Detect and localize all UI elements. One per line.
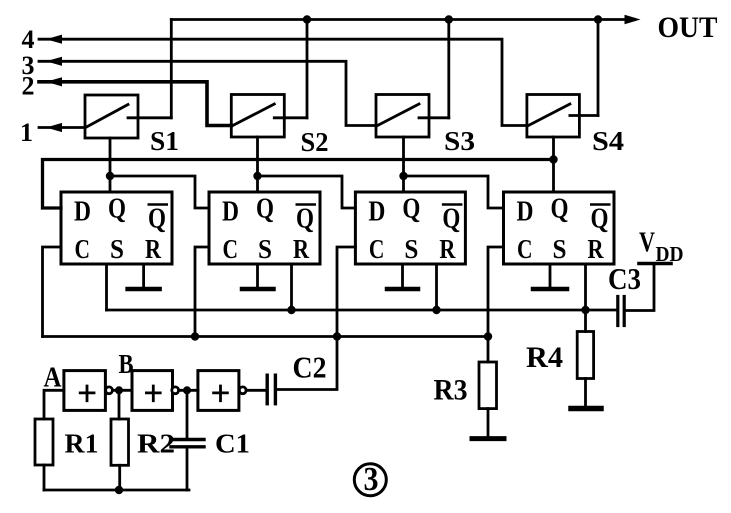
svg-text:DD: DD	[656, 242, 684, 266]
node S3 rail junction	[445, 15, 453, 23]
svg-text:R2: R2	[137, 429, 175, 459]
input line 1	[39, 126, 85, 129]
wire clock rail	[43, 335, 489, 338]
svg-text:S: S	[258, 234, 272, 264]
ground FF2 S	[242, 264, 274, 289]
capacitor C2	[267, 375, 275, 404]
svg-text:R: R	[588, 234, 604, 264]
wire C3 to VDD	[626, 264, 654, 311]
wire B to R2	[118, 390, 121, 419]
node FF3 clock tap	[333, 332, 341, 340]
wire set/reset rail	[107, 309, 617, 312]
svg-text:C3: C3	[608, 261, 641, 296]
wire FF3 C input down to C2	[277, 247, 355, 390]
svg-text:S: S	[404, 234, 418, 264]
svg-text:C: C	[369, 234, 385, 264]
svg-text:Q: Q	[442, 204, 460, 235]
svg-text:R: R	[145, 234, 161, 264]
svg-text:C1: C1	[215, 429, 250, 459]
wire A node	[44, 390, 64, 419]
svg-text:B: B	[119, 349, 134, 379]
ground FF1 R	[128, 264, 160, 289]
wire S3 to Q3	[402, 137, 405, 192]
svg-text:Q: Q	[591, 204, 609, 235]
svg-text:C: C	[517, 234, 533, 264]
svg-text:S4: S4	[592, 126, 624, 156]
figure number circle 3	[354, 464, 386, 496]
svg-text:S2: S2	[301, 127, 329, 157]
wire FF4 C input down to R3	[488, 247, 504, 362]
input line 2	[39, 82, 231, 126]
svg-text:Q: Q	[256, 194, 274, 225]
resistor R4	[577, 332, 593, 379]
switch S2	[231, 95, 307, 138]
svg-text:Q: Q	[148, 204, 166, 235]
wire FF2 R to rail	[290, 264, 293, 310]
flip-flop FF2	[209, 192, 320, 264]
svg-text:R: R	[439, 234, 455, 264]
wire top output rail	[171, 18, 625, 21]
input line 3	[39, 61, 376, 125]
svg-text:C: C	[75, 234, 91, 264]
ground R3	[472, 436, 504, 441]
svg-text:3: 3	[364, 461, 379, 498]
svg-text:R: R	[293, 234, 309, 264]
svg-text:Q: Q	[296, 204, 314, 235]
svg-text:D: D	[222, 197, 239, 228]
label VDD	[639, 228, 684, 267]
wire S2 riser	[306, 20, 309, 118]
node C1 junction	[183, 386, 191, 394]
svg-text:S3: S3	[444, 126, 475, 156]
wire FF2 C input	[195, 247, 209, 337]
node S2 rail junction	[303, 15, 311, 23]
wire to C1 top	[186, 390, 189, 439]
node feedback tap on Q4	[549, 155, 557, 163]
wire U1 out to U2	[112, 389, 132, 392]
wire C1 bottom	[186, 447, 189, 490]
svg-text:C2: C2	[293, 350, 327, 385]
svg-text:2: 2	[22, 72, 35, 101]
svg-text:A: A	[44, 362, 62, 394]
svg-text:D: D	[517, 197, 534, 228]
svg-text:V: V	[639, 228, 655, 259]
flip-flop FF1	[61, 192, 172, 264]
svg-text:S: S	[110, 234, 124, 264]
wire FF4 R down to R4	[584, 264, 587, 332]
flip-flop FF4	[504, 192, 615, 264]
wire S4 to Q4	[552, 137, 555, 192]
switch S3	[376, 95, 449, 138]
node R2 bottom junction	[115, 486, 123, 494]
wire S1 to Q1	[109, 138, 112, 192]
OUT arrow	[625, 15, 641, 25]
wire R2 bottom	[118, 465, 121, 490]
ground R4	[571, 406, 601, 412]
svg-text:4: 4	[22, 25, 35, 54]
capacitor C1	[171, 440, 204, 447]
FF3 pin labels	[368, 194, 462, 265]
FF4 pin labels	[517, 194, 611, 265]
svg-text:Q: Q	[402, 194, 420, 225]
node Q2	[253, 172, 261, 180]
wire R1 bottom	[43, 465, 46, 490]
flip-flop FF3	[355, 192, 465, 264]
svg-text:S: S	[553, 234, 567, 264]
svg-text:R4: R4	[526, 341, 563, 374]
switch S1	[85, 95, 171, 138]
wire S4 riser	[597, 20, 600, 116]
svg-text:Q: Q	[108, 194, 126, 225]
node FF4 clock tap / R3	[484, 332, 492, 340]
wire Q3 to D4	[404, 176, 504, 208]
buffer U3	[198, 371, 246, 411]
svg-text:S1: S1	[150, 126, 179, 156]
svg-text:C: C	[223, 234, 239, 264]
node Q3	[399, 172, 407, 180]
wire Q1 to D2	[110, 176, 209, 208]
input line 4	[39, 39, 527, 125]
wire FF1 S to set/reset rail	[105, 264, 108, 310]
switch S4	[527, 95, 598, 138]
wire S1 riser	[170, 20, 173, 118]
svg-text:R3: R3	[434, 374, 468, 407]
svg-text:D: D	[368, 197, 385, 228]
capacitor C3	[618, 297, 624, 326]
wire FF1 C input	[43, 247, 62, 337]
resistor R2	[111, 419, 129, 465]
buffer U2	[132, 371, 179, 411]
node B junction	[115, 386, 123, 394]
wire U3 out to C2	[246, 389, 266, 392]
resistor R1	[35, 419, 53, 465]
svg-text:1: 1	[20, 118, 33, 147]
wire oscillator bottom rail	[44, 489, 189, 492]
ground FF3 S	[387, 264, 418, 289]
resistor R3	[479, 362, 497, 409]
wire R3 to ground	[487, 409, 490, 436]
power VDD bar	[639, 262, 671, 266]
buffer U1	[64, 371, 113, 411]
node FF2 clock tap	[191, 332, 199, 340]
wire R4 to ground	[584, 379, 587, 407]
wire feedback rail Q4 to D1	[43, 160, 554, 209]
svg-text:D: D	[74, 197, 91, 228]
wire U2 out to U3	[179, 389, 198, 392]
node Q1	[106, 172, 114, 180]
wire S3 riser	[447, 20, 450, 118]
wire Q2 to D3	[258, 176, 356, 208]
ground FF4 S	[533, 264, 567, 289]
FF1 pin labels	[74, 194, 168, 265]
wire S2 to Q2	[256, 137, 259, 192]
FF2 pin labels	[222, 194, 316, 265]
svg-text:OUT: OUT	[658, 11, 718, 44]
node S4 rail junction	[594, 15, 602, 23]
svg-text:R1: R1	[65, 429, 99, 459]
wire FF3 R to rail	[435, 264, 438, 310]
svg-text:Q: Q	[551, 194, 569, 225]
